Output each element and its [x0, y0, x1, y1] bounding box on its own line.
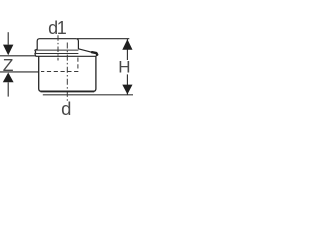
- node body bottom edge thick: [41, 90, 95, 92]
- node collar ridge line 1: [36, 49, 79, 51]
- svg-text:H: H: [118, 58, 130, 77]
- node body outline: [39, 56, 96, 91]
- node collar seal tip: [92, 52, 97, 55]
- node collar ridge line 2: [35, 53, 79, 55]
- wire bottom chamfer / extension line for H and d: [43, 94, 133, 96]
- node body fill: [39, 56, 96, 91]
- node Z arrow pointing up: [3, 73, 14, 83]
- wire Z bottom extension line: [0, 71, 39, 73]
- node H arrow pointing down: [122, 85, 132, 95]
- wire top extension line for H: [77, 38, 129, 40]
- wire body centerline: [66, 43, 68, 102]
- wire Z dimension lower stem: [7, 82, 9, 96]
- wire socket centerline: [57, 35, 59, 60]
- wire hidden stop line (dashed): [41, 58, 78, 72]
- svg-text:d1: d1: [48, 18, 67, 38]
- svg-text:Z: Z: [3, 55, 14, 75]
- wire Z dimension upper stem: [7, 32, 9, 44]
- wire H dimension line: [126, 39, 128, 95]
- svg-text:d: d: [61, 98, 71, 119]
- wire Z top extension line: [0, 55, 36, 57]
- node H label background: [117, 60, 133, 74]
- node Z arrow pointing down: [3, 45, 13, 56]
- node socket collar outline: [35, 39, 97, 57]
- node H arrow pointing up: [122, 39, 132, 50]
